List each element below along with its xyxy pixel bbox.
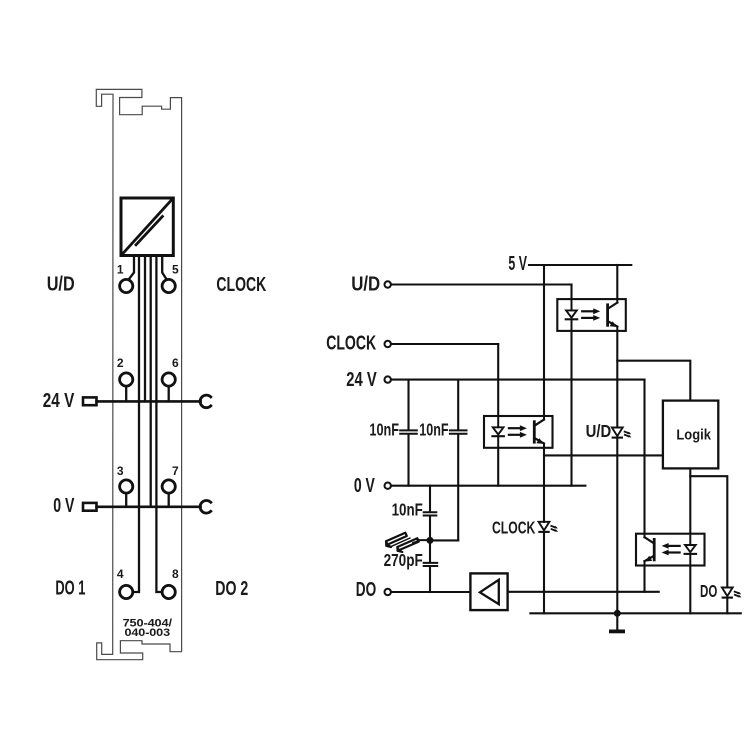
pin 1 <box>120 279 133 292</box>
svg-text:DO 2: DO 2 <box>215 578 248 600</box>
wire node to cap C4 <box>429 540 431 562</box>
svg-text:7: 7 <box>172 464 179 478</box>
optocoupler U1 <box>557 299 626 331</box>
status led U/D <box>612 428 632 438</box>
junction dot suppressor node <box>427 537 434 544</box>
wire block to pin 8 <box>156 256 160 592</box>
svg-text:CLOCK: CLOCK <box>216 274 266 296</box>
svg-text:2: 2 <box>117 356 124 370</box>
optocoupler U3 <box>636 534 705 566</box>
svg-text:Logik: Logik <box>676 428 711 444</box>
pin 3 <box>120 480 133 493</box>
capacitor C2 plates <box>450 430 467 433</box>
wire opto2 led cathode to 0V <box>497 448 499 486</box>
svg-text:8: 8 <box>172 567 179 581</box>
wire 5V to opto2 collector <box>543 265 545 416</box>
wire opto1 collector to 5V rail <box>616 265 618 299</box>
terminal DO <box>385 589 391 595</box>
svg-text:0 V: 0 V <box>354 475 375 497</box>
wire U/D to opto1 led <box>570 285 572 300</box>
terminal 24V <box>385 376 391 382</box>
svg-text:24 V: 24 V <box>346 369 377 391</box>
wire CLOCK to opto2 led <box>497 344 499 416</box>
svg-text:5: 5 <box>172 263 179 277</box>
module outline <box>96 89 181 659</box>
wire block to pin 1 <box>129 256 134 279</box>
pin 5 <box>162 279 175 292</box>
0V feed connector <box>83 503 97 511</box>
0V rail wire <box>97 505 201 508</box>
svg-text:10nF: 10nF <box>419 420 449 440</box>
ground bar <box>609 630 625 634</box>
svg-text:DO: DO <box>700 581 717 601</box>
24V rail wire <box>97 400 201 403</box>
terminal CLOCK <box>385 341 391 347</box>
wire opto1 emitter branch to Logik top <box>617 331 690 401</box>
wire 0V terminal <box>392 485 586 487</box>
svg-text:CLOCK: CLOCK <box>326 333 376 355</box>
svg-text:3: 3 <box>117 464 124 478</box>
24V jumper contact <box>200 395 211 408</box>
capacitor C3 plates <box>424 512 437 515</box>
block diagonal <box>122 199 173 255</box>
output driver A1 <box>470 573 507 610</box>
terminal 0V <box>385 483 391 489</box>
svg-text:DO: DO <box>356 579 376 601</box>
svg-text:DO 1: DO 1 <box>55 577 85 599</box>
svg-text:10nF: 10nF <box>392 500 423 520</box>
svg-text:CLOCK: CLOCK <box>492 517 536 537</box>
block inner diagonal <box>136 217 162 245</box>
wire driver to opto3 emitter <box>508 591 659 593</box>
wire opto1 emitter down to U/D led <box>616 361 618 428</box>
wire 24V terminal <box>392 379 645 381</box>
wire pin2 to 24V rail <box>125 387 127 401</box>
electronics block symbol <box>121 198 173 256</box>
status led CLOCK <box>538 522 558 532</box>
pin 6 <box>162 373 175 386</box>
ground stem <box>616 613 618 629</box>
pin 4 <box>120 585 133 598</box>
svg-text:U/D: U/D <box>586 421 612 441</box>
wire cap C3 to node <box>429 516 431 540</box>
wire opto2 emitter to Logik left <box>544 454 663 456</box>
svg-text:040-003: 040-003 <box>125 627 171 639</box>
wire cap C4 to DO line <box>429 567 431 593</box>
wire cap C1 top <box>407 380 409 430</box>
wire U/D terminal <box>392 283 572 285</box>
wire block to 24V rail <box>144 256 146 401</box>
wire pin3 to 0V rail <box>125 495 127 507</box>
wire cap C2 bottom to suppressor node <box>457 434 459 540</box>
wire pin6 to 24V rail <box>168 387 170 401</box>
ground rail <box>530 612 740 614</box>
wire suppressor node to C2 branch <box>430 539 458 541</box>
wire cap C1 bottom <box>407 434 409 486</box>
svg-text:4: 4 <box>117 567 124 581</box>
wire Logik branch to DO led <box>690 476 727 587</box>
wire block to pin 4 <box>134 256 139 592</box>
pin 7 <box>162 480 175 493</box>
wire DO led to ground rail <box>726 598 728 614</box>
wire pin7 to 0V rail <box>168 495 170 507</box>
svg-text:270pF: 270pF <box>384 550 423 570</box>
svg-text:1: 1 <box>117 263 124 277</box>
wire DO terminal to driver <box>392 591 471 593</box>
junction dot ground <box>614 610 621 617</box>
wire block to 0V rail <box>150 256 152 507</box>
wire opto3 led cathode to ground rail <box>689 566 691 614</box>
terminal U/D <box>385 281 391 287</box>
logic block U4 <box>663 401 718 469</box>
svg-text:6: 6 <box>172 356 179 370</box>
wire opto2 emitter down to CLOCK led <box>543 448 545 522</box>
wire opto3 emitter down to DO line <box>643 566 645 592</box>
wire opto1 led cathode to 0V <box>570 331 572 486</box>
wire Logik bottom to opto3 led <box>689 468 691 533</box>
pin 8 <box>162 585 175 598</box>
svg-text:24 V: 24 V <box>43 390 75 412</box>
wire cap C2 top <box>457 380 459 430</box>
24V feed connector <box>83 397 97 405</box>
wire 0V to cap C3 <box>429 486 431 512</box>
wire 24V down to opto3 collector <box>643 380 645 534</box>
wire U/D led to ground rail <box>616 438 618 614</box>
5V rail <box>529 264 631 266</box>
pin 2 <box>120 373 133 386</box>
wire CLOCK led to ground rail <box>543 532 545 613</box>
svg-text:0 V: 0 V <box>53 495 75 517</box>
DIN rail (carrier rail) symbol <box>386 533 430 552</box>
0V jumper contact <box>200 500 211 513</box>
svg-text:10nF: 10nF <box>369 420 399 440</box>
optocoupler U2 <box>484 416 553 448</box>
capacitor C4 plates <box>424 563 438 566</box>
svg-text:U/D: U/D <box>47 274 75 296</box>
wire block to pin 5 <box>162 256 166 279</box>
svg-text:5 V: 5 V <box>508 253 527 275</box>
capacitor C1 plates <box>400 430 417 433</box>
svg-text:U/D: U/D <box>351 274 380 296</box>
wire CLOCK terminal <box>392 343 499 345</box>
status led DO <box>722 588 742 598</box>
